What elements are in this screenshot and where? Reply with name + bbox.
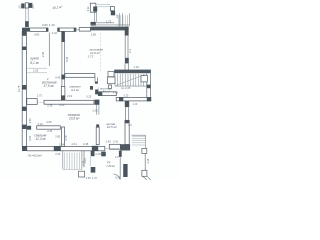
svg-text:2.44: 2.44 <box>55 152 61 156</box>
svg-text:2.41: 2.41 <box>113 140 119 144</box>
svg-text:5.48: 5.48 <box>65 56 69 62</box>
svg-text:1.10: 1.10 <box>134 65 140 69</box>
svg-text:0.25: 0.25 <box>86 177 91 180</box>
svg-text:Пл.=62,0м²: Пл.=62,0м² <box>28 153 42 157</box>
svg-text:8,1 м²: 8,1 м² <box>30 61 40 65</box>
svg-text:0.39: 0.39 <box>93 110 98 113</box>
svg-text:4.11: 4.11 <box>87 6 90 11</box>
svg-text:8,1 м²: 8,1 м² <box>103 90 110 94</box>
svg-text:2.19: 2.19 <box>84 158 87 164</box>
svg-text:3.81: 3.81 <box>28 118 32 124</box>
svg-text:3,2 м²: 3,2 м² <box>71 88 80 92</box>
svg-text:12,3 м²: 12,3 м² <box>35 137 46 141</box>
svg-text:0.25: 0.25 <box>115 176 121 180</box>
svg-text:2.73: 2.73 <box>88 54 94 58</box>
svg-text:0.25: 0.25 <box>87 96 92 99</box>
svg-text:0.42: 0.42 <box>52 31 58 35</box>
svg-text:2.26: 2.26 <box>33 69 39 73</box>
svg-text:4.42: 4.42 <box>113 90 119 94</box>
svg-text:7,26 м²: 7,26 м² <box>106 164 115 168</box>
svg-text:0.80: 0.80 <box>42 23 48 27</box>
svg-text:2.85: 2.85 <box>55 135 61 139</box>
svg-text:2.70: 2.70 <box>65 135 68 141</box>
svg-text:10,5 м²: 10,5 м² <box>69 117 80 121</box>
svg-text:3.44: 3.44 <box>59 143 65 147</box>
svg-text:2.35: 2.35 <box>47 129 53 133</box>
svg-text:2.19: 2.19 <box>38 122 44 126</box>
svg-text:2.73: 2.73 <box>106 19 112 23</box>
svg-text:2.40: 2.40 <box>106 140 112 144</box>
svg-text:2.58: 2.58 <box>91 33 97 37</box>
svg-text:2.18: 2.18 <box>147 158 150 164</box>
svg-text:0.45: 0.45 <box>55 76 61 80</box>
svg-text:2.48: 2.48 <box>95 152 101 156</box>
svg-text:10,5 м²: 10,5 м² <box>107 125 118 129</box>
svg-text:2.85: 2.85 <box>47 120 53 124</box>
svg-text:0.25: 0.25 <box>124 95 129 97</box>
svg-text:2.73: 2.73 <box>37 94 43 98</box>
svg-text:1 лестница: 1 лестница <box>98 86 112 90</box>
svg-text:1.47: 1.47 <box>92 177 97 180</box>
svg-text:2.48: 2.48 <box>83 142 89 146</box>
svg-text:2.19: 2.19 <box>47 103 53 107</box>
svg-text:1.40: 1.40 <box>49 23 55 27</box>
svg-text:2.4: 2.4 <box>128 49 132 54</box>
svg-text:2.41: 2.41 <box>72 142 78 146</box>
svg-text:0.80: 0.80 <box>34 33 40 37</box>
svg-text:пл.-0,35: пл.-0,35 <box>121 87 131 90</box>
svg-text:0.15: 0.15 <box>29 135 32 140</box>
svg-text:17,0 м²: 17,0 м² <box>44 84 55 88</box>
svg-text:кухня: кухня <box>31 57 39 61</box>
svg-text:4.41: 4.41 <box>60 103 66 107</box>
svg-text:1,10: 1,10 <box>133 103 138 106</box>
svg-text:2.40: 2.40 <box>41 51 45 58</box>
svg-text:2.0: 2.0 <box>115 155 119 159</box>
svg-text:11.75: 11.75 <box>17 85 21 92</box>
svg-text:2,4: 2,4 <box>32 5 35 10</box>
svg-text:2.19: 2.19 <box>67 94 73 98</box>
